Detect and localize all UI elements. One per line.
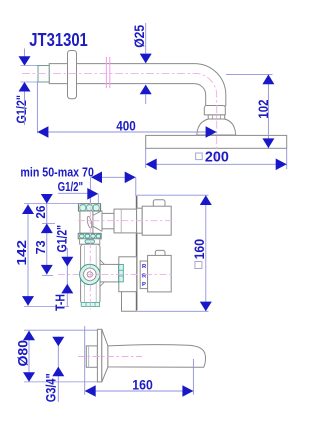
valve neck	[80, 211, 93, 233]
valve top branch block	[114, 209, 137, 233]
leader G1/2 line	[58, 192, 88, 194]
spout flange plate	[97, 329, 101, 382]
svg-text:160: 160	[132, 377, 153, 393]
dim G1/2 line lower	[24, 92, 26, 126]
dim 102 arrow up	[262, 75, 274, 85]
wall plate line	[136, 196, 138, 311]
dim square160 square symbol	[195, 262, 202, 269]
dim 102 line	[267, 74, 269, 148]
dim 142 arrow up	[22, 204, 34, 214]
svg-text:26: 26	[34, 206, 48, 219]
leader G1/2 arrow	[87, 188, 98, 200]
svg-text:P: P	[142, 282, 146, 288]
dim 142 arrow down	[22, 296, 34, 306]
top handle body	[142, 206, 171, 235]
dim G1/2 side line	[66, 248, 68, 306]
dim min50 arrow right	[125, 172, 136, 184]
dim Ø80 extension bottom	[24, 381, 97, 383]
svg-text:G3/4": G3/4"	[43, 373, 59, 402]
dim min50 line	[92, 176, 136, 178]
extension line valve top	[24, 203, 80, 205]
top handle knob	[153, 200, 165, 207]
dim 200 arrow right	[276, 159, 287, 171]
knurled ring	[208, 115, 225, 119]
dim Ø25 arrow up	[140, 85, 152, 95]
dim 26/73 line	[46, 204, 48, 275]
centerline vertical (valve)	[89, 198, 91, 310]
dim 26 arrow down	[41, 194, 53, 204]
dim Ø25 arrow down	[140, 54, 152, 64]
dim G1/2 side arrow down	[61, 257, 73, 267]
valve main body	[81, 244, 100, 304]
dim 160 extension right	[192, 359, 194, 395]
valve cartridge lens	[86, 216, 92, 229]
ball dome of shower head	[197, 119, 236, 135]
dim 160 line	[85, 390, 194, 392]
bottom branch hatch strip	[119, 264, 124, 282]
branch chamfer lines	[93, 211, 102, 216]
dim Ø80 extension top	[24, 329, 97, 331]
valve nut band 2	[80, 239, 100, 244]
dim Ø25 extension line	[145, 23, 147, 54]
pipe break marks (pink)	[105, 57, 107, 88]
dim square160 extension top	[137, 194, 209, 196]
valve bottom branch pipe	[100, 264, 119, 282]
valve top cap G1/2 port	[78, 204, 100, 211]
dim Ø80 arrow up	[23, 331, 35, 341]
dim square160 arrow up	[200, 195, 212, 205]
dim Ø25 lower stub line	[145, 94, 147, 104]
dim min50 extension (valve centre)	[89, 177, 91, 203]
svg-text:142: 142	[15, 240, 29, 266]
dim Ø80 line	[28, 331, 30, 382]
dim G3/4 arrow up	[52, 367, 64, 377]
svg-text:G1/2": G1/2"	[58, 180, 84, 194]
spout flange cone	[102, 329, 108, 382]
bottom handle body	[148, 255, 172, 292]
dim 160 arrow right	[182, 385, 193, 397]
valve top branch pipe	[102, 213, 114, 228]
dim G1/2 line upper	[24, 49, 26, 57]
dim 102 arrow down	[262, 138, 274, 148]
centerline bottom branch	[58, 273, 172, 275]
dim G1/2 arrow down	[19, 56, 31, 65]
dim Ø80 arrow down	[23, 372, 35, 382]
dim square160 line	[205, 195, 207, 311]
leader G1/2 drop line	[97, 194, 99, 204]
bottom handle letterbox	[140, 261, 147, 289]
dim square160 extension bottom	[137, 310, 209, 312]
svg-text:T-H: T-H	[52, 294, 67, 311]
dim 400 arrow left	[37, 126, 48, 138]
dim 200 extension left	[145, 148, 147, 168]
dim 200 arrow left	[146, 159, 157, 171]
dim min50 arrow left	[91, 172, 102, 184]
dim 142 line	[27, 204, 29, 305]
extension line y275.6	[42, 275, 53, 277]
svg-text:G1/2": G1/2"	[13, 95, 29, 124]
dim 26 arrow up	[41, 224, 53, 234]
spout body	[108, 345, 206, 368]
dim square160 arrow down	[200, 302, 212, 312]
wall nipple G1/2	[38, 66, 49, 83]
centerline top branch	[78, 220, 172, 222]
valve bottom port hatch	[81, 302, 99, 306]
svg-text:JT31301: JT31301	[29, 30, 88, 50]
svg-text:min 50-max 70: min 50-max 70	[20, 165, 94, 179]
dim 200 square symbol	[196, 153, 203, 160]
dim 73 arrow down	[41, 265, 53, 275]
escutcheon flange on arm	[68, 51, 77, 99]
dim 200 line	[146, 163, 287, 165]
dim 200 extension right	[286, 148, 288, 169]
dim G1/2 arrow up	[19, 82, 31, 92]
svg-text:Ø25: Ø25	[132, 24, 147, 47]
spout wall stub G3/4	[86, 346, 97, 367]
extension line y223.5	[42, 223, 55, 225]
dim 102 extension line top	[226, 73, 273, 75]
dim G1/2 side arrow up	[61, 284, 73, 294]
extension line valve bottom	[24, 305, 69, 307]
centerline of shower arm (pink)	[22, 73, 217, 161]
svg-text:160: 160	[191, 239, 207, 260]
svg-text:400: 400	[116, 117, 136, 133]
shower head plate	[146, 135, 287, 148]
bottom handle knob	[155, 250, 165, 256]
valve bottom branch block	[119, 257, 137, 292]
svg-text:102: 102	[256, 100, 271, 119]
shower arm pipe	[49, 64, 226, 106]
valve side port circle	[80, 264, 100, 284]
dim 400 arrow right	[206, 126, 217, 138]
dim G3/4 line	[57, 337, 59, 403]
extension lines nipple	[21, 65, 38, 67]
svg-text:200: 200	[205, 149, 229, 165]
outlet elbow lines to wall	[122, 292, 137, 312]
dim 160 arrow left	[85, 385, 96, 397]
dim G3/4 arrow down	[52, 337, 64, 347]
svg-text:Ø80: Ø80	[16, 340, 31, 367]
dim 160 extension left	[84, 326, 86, 395]
collar under vertical pipe	[204, 106, 225, 115]
dim 400 line	[37, 131, 216, 133]
valve nut band 1	[78, 233, 101, 239]
top handle flange	[137, 208, 143, 233]
svg-text:73: 73	[34, 240, 48, 254]
dim 400 extension line left	[36, 82, 38, 134]
spout centerline	[78, 356, 142, 358]
